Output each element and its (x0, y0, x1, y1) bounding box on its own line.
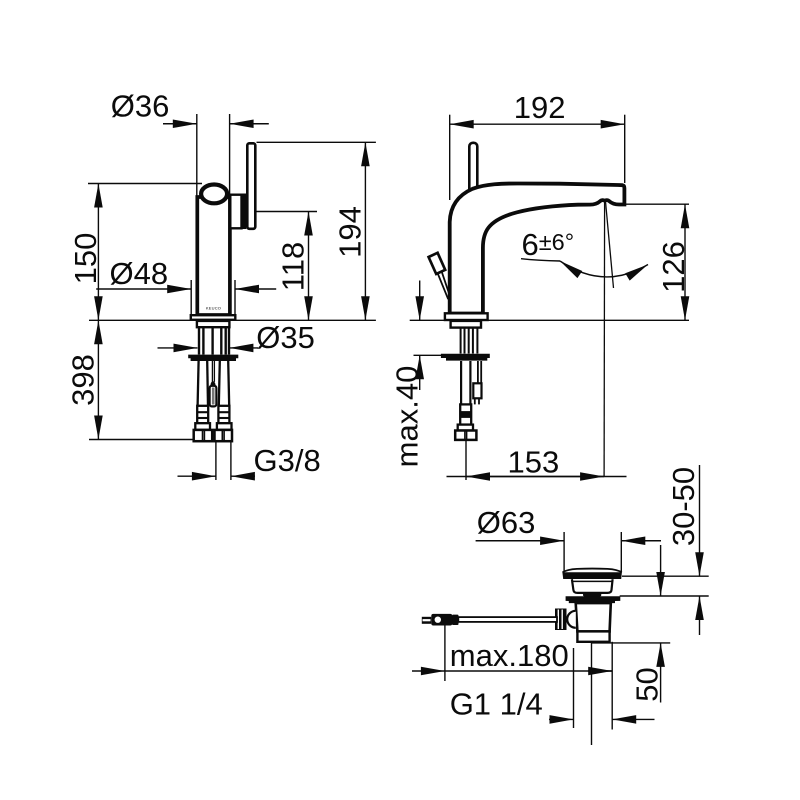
svg-text:50: 50 (630, 667, 665, 701)
pull rod side block (473, 383, 481, 398)
right hose collar (217, 423, 232, 430)
threaded shank lines (199, 327, 229, 354)
hose lines side (460, 361, 462, 404)
svg-text:192: 192 (514, 90, 566, 125)
dimension O36 lines with converging arrows (163, 123, 197, 125)
countertop line side (410, 319, 445, 321)
svg-text:max.180: max.180 (450, 638, 569, 673)
svg-text:153: 153 (508, 445, 560, 480)
plug cap rim band (562, 572, 622, 579)
drain body lower band (577, 631, 609, 641)
svg-text:Ø36: Ø36 (111, 89, 170, 124)
dimension 50 arrows (660, 545, 662, 596)
dimension O48 lines with converging arrows (96, 288, 191, 290)
dimension 398 line (97, 320, 99, 439)
svg-text:G3/8: G3/8 (254, 443, 321, 478)
plug cap lens top (563, 569, 622, 573)
plug seal ring (583, 593, 601, 597)
washer plate (188, 355, 238, 361)
dimension 192 extension lines (449, 115, 451, 200)
dimension 150 top extension line (88, 183, 202, 185)
hose braid side (460, 404, 471, 424)
drain body (576, 603, 611, 631)
shank collar side (451, 321, 481, 328)
dimension O36 extension lines (196, 114, 198, 198)
linkage knob (555, 609, 567, 631)
svg-text:150: 150 (68, 233, 103, 285)
svg-text:30-50: 30-50 (666, 467, 701, 546)
dimension 153 left extension line (465, 440, 467, 480)
rod tip (422, 617, 432, 624)
spray axis slanted line (606, 202, 614, 289)
drain flange (566, 596, 621, 603)
lever handle bar (247, 143, 255, 229)
svg-text:6±6°: 6±6° (522, 227, 575, 262)
shank collar (197, 321, 230, 327)
plug neck (572, 579, 613, 593)
dimension 30-50 arrows (699, 465, 701, 576)
angle leader line (521, 259, 560, 261)
pull rod thin lines (211, 361, 213, 382)
dimension G1 1/4 extension lines (573, 648, 575, 728)
KEUCO logo (206, 305, 221, 310)
dimension 126 line (684, 204, 686, 320)
ball joint (201, 185, 227, 204)
dimension 126 top extension line (625, 203, 689, 205)
dimension G3/8 extension lines (215, 441, 217, 480)
right supply hose (219, 361, 220, 406)
pull rod lower block (210, 386, 217, 407)
dimension max.180 extension lines (444, 626, 446, 682)
svg-text:max.40: max.40 (390, 366, 425, 468)
dimension 398 bottom extension line (89, 439, 194, 441)
pull rod horizontal (458, 617, 557, 622)
svg-text:G1 1/4: G1 1/4 (450, 687, 543, 722)
dimension G1 1/4 lines with converging arrows (549, 718, 574, 720)
housing dark bar (242, 194, 247, 230)
handle rod side (469, 143, 477, 193)
svg-text:Ø48: Ø48 (110, 256, 169, 291)
svg-text:194: 194 (333, 206, 368, 258)
pull rod side lines (477, 361, 479, 383)
base escutcheon side (445, 313, 488, 320)
hose collar side (458, 425, 473, 431)
dimension 192 line (450, 123, 625, 125)
svg-text:118: 118 (276, 242, 311, 291)
drain pull knob side (429, 253, 446, 274)
dimension 194 line (364, 142, 366, 320)
dimension O63 extension lines (563, 532, 565, 572)
countertop line left segment (89, 319, 190, 321)
svg-text:Ø35: Ø35 (256, 320, 315, 355)
dimension max.40 washer extension line (414, 354, 444, 356)
dimension 150 line (97, 184, 99, 321)
dimension O63 lines with converging arrows (476, 540, 564, 542)
left supply hose (198, 361, 199, 406)
left hose nut (194, 430, 213, 441)
dimension 118 top extension line (257, 211, 318, 213)
dimension O48 extension lines (190, 280, 192, 315)
right hose nut (215, 430, 233, 441)
washer plate side (441, 354, 490, 361)
dimension 30-50 extension lines (622, 575, 709, 577)
spray axis vertical line (603, 201, 606, 477)
hose nut side (455, 431, 476, 440)
dimension 194 top extension line (257, 141, 376, 143)
dimension max.180 line (412, 670, 445, 672)
left hose braid section (197, 406, 208, 423)
cartridge housing (230, 195, 241, 229)
countertop line right segment (236, 319, 376, 321)
spout body outline (450, 183, 625, 313)
dimension 118 line (308, 212, 310, 321)
left hose collar (195, 423, 210, 430)
right hose braid section (218, 406, 229, 423)
shank lines side (461, 328, 478, 354)
pull rod end cap (210, 381, 215, 386)
svg-text:Ø63: Ø63 (477, 505, 536, 540)
dimension 50 bottom extension line (592, 642, 671, 644)
svg-text:398: 398 (66, 354, 101, 406)
linkage socket (567, 611, 576, 628)
dimension max.40 arrows (419, 281, 421, 321)
angle arc with arrows (560, 261, 648, 277)
dimension 153 line (447, 476, 627, 478)
faucet body cylinder (197, 197, 230, 315)
svg-text:126: 126 (656, 241, 691, 293)
rod collar (452, 615, 459, 625)
svg-text:KEUCO: KEUCO (206, 305, 221, 310)
drain pull stem lines (438, 273, 449, 299)
dimension G3/8 lines with converging arrows (178, 475, 216, 477)
rod ball joint (431, 614, 452, 626)
dimension O35 lines with converging arrows (158, 347, 198, 349)
base escutcheon (191, 315, 236, 320)
